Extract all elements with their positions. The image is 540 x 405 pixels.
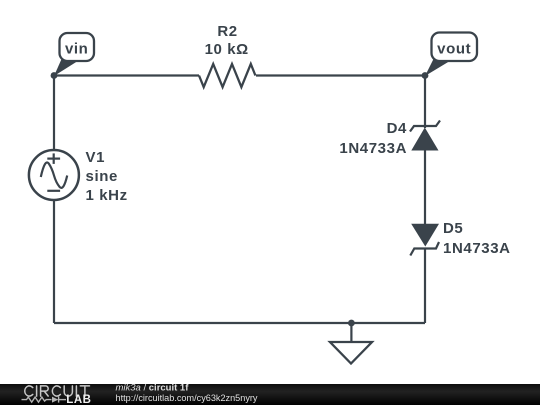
wire: ground stub [350,323,352,342]
wire: below D5 to bottom rail [424,248,426,323]
wire: between D4 and D5 [424,150,426,224]
svg-text:D5: D5 [443,220,463,237]
svg-text:http://circuitlab.com/cy63k2zn: http://circuitlab.com/cy63k2zn5nyry [116,393,258,404]
wire: top from resistor to vout node [256,74,425,76]
wire: left vertical from V1 to bottom rail [53,201,55,324]
junction ground node [348,320,355,327]
svg-text:1 kHz: 1 kHz [86,187,128,204]
svg-text:1N4733A: 1N4733A [443,240,511,257]
CircuitLab logo: resistor-diode icon [22,397,67,403]
svg-text:vin: vin [65,41,88,58]
svg-text:1N4733A: 1N4733A [339,140,407,157]
zener diode D4 [339,120,440,157]
wire: right vertical vout to D4 [424,76,426,129]
svg-text:mik3a / circuit 1f: mik3a / circuit 1f [116,383,190,394]
resistor R2 [199,23,255,87]
svg-text:10 kΩ: 10 kΩ [205,41,249,58]
wire: top from vin node to resistor [54,74,199,76]
svg-text:V1: V1 [86,149,106,166]
wire: bottom rail [54,322,425,324]
footer bar [0,384,540,405]
svg-text:R2: R2 [217,23,237,40]
svg-text:LAB: LAB [66,394,91,405]
svg-text:vout: vout [437,41,471,58]
node vout (flag) [422,33,477,79]
zener diode D5 [410,220,510,257]
svg-text:sine: sine [86,168,118,185]
voltage source V1 [29,149,128,204]
CircuitLab logo: CIRCUIT lettering [25,386,90,396]
node vin (flag) [51,33,94,79]
ground symbol [330,342,372,364]
wire: left vertical from vin node to V1 [53,76,55,151]
svg-text:D4: D4 [387,120,407,137]
